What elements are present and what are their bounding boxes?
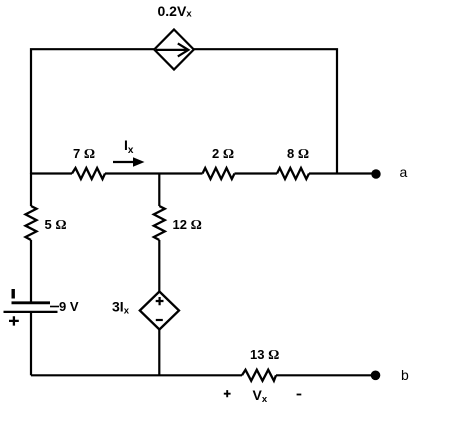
- terminal a dot: [371, 169, 380, 178]
- svg-text:12 Ω: 12 Ω: [173, 217, 202, 233]
- resistor R2 2ohm: [203, 168, 235, 179]
- arrow inside current source: [156, 43, 188, 56]
- battery V1 9V bottom plate: [4, 311, 58, 313]
- svg-text:Vx: Vx: [253, 387, 268, 405]
- wire top rail left segment: [31, 49, 154, 174]
- svg-text:a: a: [400, 164, 408, 180]
- svg-text:Ix: Ix: [124, 137, 134, 156]
- resistor R6 13ohm: [242, 370, 276, 381]
- wire middle rail segment 1: [31, 172, 72, 174]
- wire middle rail segment 3: [235, 172, 278, 174]
- wire mid branch upper: [158, 174, 160, 207]
- wire middle rail segment 4: [309, 172, 376, 174]
- battery terminal mark I: [12, 289, 15, 299]
- wire battery to bottom rail: [30, 312, 32, 375]
- minus inside source: [156, 319, 163, 321]
- polarity minus for Vx: [297, 394, 302, 396]
- svg-text:b: b: [401, 367, 409, 383]
- svg-text:7 Ω: 7 Ω: [73, 146, 95, 162]
- wire bottom rail segment 1: [31, 374, 242, 376]
- wire from 5ohm to battery: [30, 240, 32, 303]
- terminal b dot: [371, 371, 381, 381]
- svg-text:0.2Vx: 0.2Vx: [158, 3, 193, 20]
- wire bottom rail segment 2: [276, 374, 376, 376]
- svg-text:2 Ω: 2 Ω: [212, 146, 234, 162]
- dependent voltage source U2 3Ix diamond: [140, 292, 179, 330]
- wire middle rail segment 2: [105, 172, 203, 174]
- resistor R5 12ohm vertical: [154, 206, 165, 240]
- dependent current source U1 0.2Vx diamond: [154, 30, 194, 70]
- svg-text:9 V: 9 V: [59, 299, 79, 314]
- svg-text:3Ix: 3Ix: [112, 299, 130, 317]
- leader line to 9V label: [50, 306, 59, 308]
- wire left rail lower: [30, 174, 32, 207]
- svg-text:5 Ω: 5 Ω: [45, 217, 67, 233]
- wire source to bottom rail: [158, 330, 160, 376]
- plus inside source: [156, 297, 164, 305]
- polarity plus for Vx: [224, 390, 231, 397]
- battery V1 9V top plate: [12, 301, 51, 304]
- svg-text:13 Ω: 13 Ω: [250, 347, 279, 363]
- resistor R3 8ohm: [277, 168, 309, 179]
- battery plus sign: [9, 316, 19, 325]
- wire 12ohm to source: [158, 240, 160, 292]
- svg-text:8 Ω: 8 Ω: [287, 146, 309, 162]
- resistor R1 7ohm: [72, 168, 105, 179]
- current arrow Ix: [113, 157, 145, 166]
- wire top rail right segment: [194, 49, 337, 174]
- resistor R4 5ohm vertical: [26, 206, 37, 240]
